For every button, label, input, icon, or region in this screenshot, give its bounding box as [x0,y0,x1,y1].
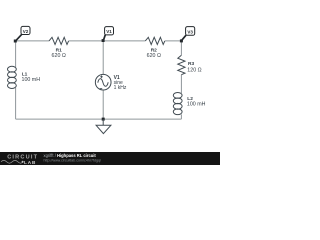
resistor R3 [178,55,185,74]
wire top rail middle (R1 to R2) [69,40,146,42]
wire right rail between R3 and L2 [180,75,182,93]
svg-text:620 Ω: 620 Ω [52,53,66,59]
junction dot bottom middle [102,118,105,121]
wire bottom rail [16,118,182,120]
svg-text:100 mH: 100 mH [22,77,41,83]
node flag pointer V2 [16,34,22,41]
svg-text:R3: R3 [188,61,194,67]
inductor L2 [173,93,182,115]
svg-text:620 Ω: 620 Ω [147,53,161,59]
wire top rail left (V2 node to R1) [16,40,50,42]
svg-text:V2: V2 [23,29,29,34]
svg-text:http://www.circuitlab.com/c4hr: http://www.circuitlab.com/c4hr7fdgq/ [44,159,102,163]
resistor R2 [145,37,165,44]
node flag box V2 [21,26,30,34]
svg-text:120 Ω: 120 Ω [187,67,201,73]
node junction blob V1 [102,39,105,42]
wire left rail lower [15,88,17,119]
node flag box V3 [186,27,195,36]
CircuitLab logo sine end dot [22,161,24,163]
wire top rail right (R2 to V3 corner) [165,40,182,42]
ground symbol [96,125,111,133]
CircuitLab logo sine [1,160,23,163]
svg-text:xgrifft / Highpass RL circuit: xgrifft / Highpass RL circuit [44,153,97,158]
footer bar [0,152,220,165]
wire right rail upper [180,41,182,55]
inductor L1 [7,66,16,88]
node flag box V1 [105,27,114,35]
resistor R1 [49,37,69,44]
svg-text:100 mH: 100 mH [187,102,206,108]
node junction blob V3 [180,39,183,42]
svg-text:V1: V1 [106,29,112,34]
wire left rail [15,41,17,67]
voltage source V1 [95,74,111,90]
wire right rail lower [180,114,182,119]
svg-text:V3: V3 [187,29,193,34]
svg-text:LAB: LAB [24,160,36,165]
node junction blob V2 [14,40,17,43]
wire middle rail lower [102,90,104,119]
node flag pointer V3 [182,35,187,40]
svg-text:1 kHz: 1 kHz [114,85,127,91]
node flag pointer V1 [103,35,105,41]
ground stub wire [102,119,104,125]
wire middle rail upper [102,41,104,75]
